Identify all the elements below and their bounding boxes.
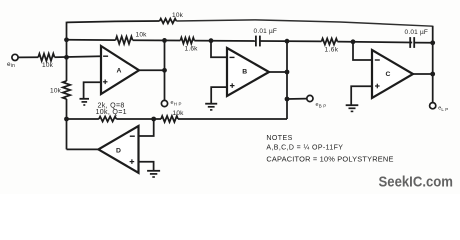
terminal e_in (12, 54, 18, 60)
plus mark B (230, 85, 235, 87)
junction right rail at cap (430, 40, 435, 45)
svg-text:1.6k: 1.6k (185, 46, 199, 53)
wire A output (139, 69, 165, 71)
wire D inverting input (139, 119, 154, 136)
terminal e_LP (430, 103, 436, 109)
junction left rail bottom (64, 117, 69, 122)
junction row2 at x164 (162, 38, 167, 43)
wire bottom to mid rail (178, 118, 287, 120)
wire top feedback (right segment) (176, 20, 432, 26)
resistor R2 10k (top feedback) (160, 19, 177, 24)
resistor R1 10k (input) (38, 54, 54, 61)
wire C output (413, 73, 433, 75)
plus mark C (375, 85, 380, 87)
svg-text:ein: ein (7, 61, 15, 69)
capacitor C1 0.01uF (255, 36, 257, 47)
resistor R3 10k (A feedback) (116, 36, 133, 44)
wire left rail upper (A inverting node) (66, 22, 68, 81)
wire row2 R4 to C1 (194, 40, 256, 42)
wire A-output node up to row2 (164, 40, 166, 70)
op-amp U1-C (372, 50, 413, 98)
junction left rail e_in (64, 55, 69, 60)
resistor R5 10k (Q-setting, vertical) (63, 81, 70, 99)
wire bottom rail to R7 (67, 118, 99, 120)
svg-text:0.01 µF: 0.01 µF (405, 29, 429, 36)
ground D (147, 170, 160, 172)
resistor R4 1.6k (to B) (180, 38, 194, 44)
plus mark D (130, 161, 135, 163)
svg-text:10k: 10k (173, 110, 185, 117)
svg-text:10k: 10k (172, 12, 184, 19)
junction A output (162, 68, 167, 73)
minus mark C (375, 59, 380, 61)
ground A (80, 98, 90, 100)
svg-text:10k: 10k (50, 87, 62, 94)
wire B output (269, 71, 287, 73)
ground B (205, 103, 217, 105)
wire B non-inverting to ground (211, 87, 227, 103)
wire right rail (432, 26, 434, 103)
wire C inverting input (353, 42, 372, 60)
junction e_BP tap (285, 97, 290, 102)
wire left rail lower (D output node) (66, 99, 68, 149)
wire row2 R6 to C2 (337, 41, 412, 44)
wire C non-inverting to ground (351, 86, 372, 105)
svg-text:0.01 µF: 0.01 µF (254, 28, 278, 35)
svg-text:1.6k: 1.6k (325, 47, 339, 54)
junction row2 at x353 (351, 39, 356, 44)
wire row2 C2 to right rail (414, 42, 433, 44)
svg-text:10k, Q=1: 10k, Q=1 (96, 108, 127, 116)
wire A-output node down to e_HP (164, 70, 166, 100)
svg-text:10k: 10k (42, 62, 54, 69)
resistor R6 1.6k (to C) (322, 39, 338, 45)
svg-text:A: A (116, 68, 121, 75)
wire row2 C1 to node B-out (260, 40, 322, 42)
minus mark B (230, 56, 235, 58)
svg-text:A,B,C,D = ¼ OP-11FY: A,B,C,D = ¼ OP-11FY (266, 145, 343, 152)
plus mark A (103, 81, 108, 83)
terminal e_HP (161, 100, 167, 106)
junction left rail row2 (64, 37, 69, 42)
op-amp U1-D (98, 126, 138, 173)
junction D inverting node (151, 117, 156, 122)
svg-text:B: B (242, 68, 247, 75)
svg-text:eL P: eL P (438, 106, 448, 112)
svg-text:10k: 10k (136, 31, 148, 38)
capacitor C2 0.01uF (409, 37, 411, 48)
junction C output (430, 72, 435, 77)
svg-text:SeekIC.com: SeekIC.com (379, 174, 454, 191)
junction row2 at x211 (209, 38, 214, 43)
resistor R8 10k (D feedback) (161, 116, 178, 122)
junction B output (285, 70, 290, 75)
wire mid rail (B output node) (286, 41, 288, 119)
resistor R7 2k/10k (D input) (99, 117, 116, 122)
svg-text:D: D (116, 148, 121, 155)
svg-text:C: C (385, 71, 390, 78)
minus mark D (130, 135, 135, 137)
svg-text:eB P: eB P (316, 102, 327, 108)
wire B inverting input (211, 41, 227, 58)
wire row2 R3 to R4 (133, 39, 181, 41)
svg-text:CAPACITOR = 10% POLYSTYRENE: CAPACITOR = 10% POLYSTYRENE (266, 155, 393, 164)
terminal e_BP (307, 95, 313, 101)
op-amp U1-B (227, 48, 269, 96)
wire A non-inverting to ground (84, 82, 101, 98)
op-amp U1-A (101, 46, 139, 94)
wire R7 to D node (116, 118, 161, 120)
minus mark A (103, 55, 108, 57)
wire top feedback (left segment) (67, 21, 160, 22)
wire row2 from rail to R3 (67, 39, 116, 41)
svg-text:eH P: eH P (171, 100, 182, 106)
svg-text:NOTES: NOTES (266, 135, 292, 142)
junction row2 at x287 (285, 39, 290, 44)
wire e_BP tap (287, 98, 307, 100)
wire e_in to R1 (18, 56, 38, 58)
wire R1 to A inverting input (55, 55, 102, 58)
wire D non-inverting to ground (139, 162, 154, 171)
ground C (346, 104, 359, 106)
wire D output to left rail (67, 148, 99, 150)
